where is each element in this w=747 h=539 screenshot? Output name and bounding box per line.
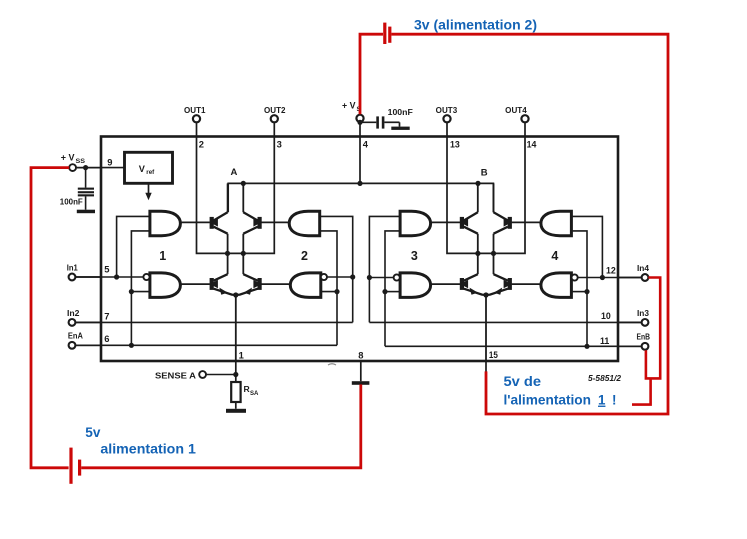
junction dot EnA feed west	[129, 343, 134, 348]
svg-text:7: 7	[104, 310, 109, 321]
svg-text:4: 4	[363, 138, 369, 149]
junction dot B west	[475, 181, 480, 186]
inverting bubble on G4 lower input	[572, 274, 578, 280]
svg-text:SENSE A: SENSE A	[155, 370, 196, 380]
svg-text:13: 13	[450, 139, 460, 149]
node A label	[231, 167, 238, 178]
pin number 1	[239, 349, 244, 360]
wire EnB (pin 11) into IC	[385, 345, 642, 347]
pin number 2	[199, 138, 204, 149]
pin number 14	[527, 139, 537, 149]
pin 5 In1 terminal	[67, 262, 101, 280]
wire In3 feed up to G3 upper input	[369, 216, 400, 322]
emitter common node of cross A	[233, 292, 238, 297]
wire In4 feed up to G4 upper input	[571, 216, 602, 277]
svg-text:1: 1	[239, 349, 244, 360]
capacitor C1 100nF at +Vss	[60, 168, 94, 210]
channel label 1	[159, 249, 166, 263]
wire G1 lower output to QA3 base	[180, 283, 210, 285]
pin 13 OUT3 terminal circle and stub	[436, 106, 458, 138]
svg-text:V: V	[139, 164, 146, 174]
pin 1 lead below IC (SENSE A)	[235, 361, 237, 382]
ground bar at pin 8	[352, 381, 370, 385]
pin number 8	[358, 349, 363, 360]
wire EnB tap to G3 lower input	[385, 291, 400, 293]
pin number 7	[104, 310, 109, 321]
Vref regulator box U-ref	[125, 152, 173, 183]
red wire +Vss to battery 1 positive	[31, 168, 69, 468]
svg-text:ref: ref	[146, 169, 155, 176]
svg-text:3v (alimentation 2): 3v (alimentation 2)	[414, 18, 537, 34]
OUT1-OUT2 rail with pin 2 and pin 3 leads	[197, 137, 275, 254]
svg-text:100nF: 100nF	[388, 107, 413, 117]
OUT3-OUT4 rail with pin 13 and pin 14 leads	[447, 137, 525, 254]
scan artifact squiggle	[328, 364, 336, 365]
wire In2 feed up to G2 upper input	[320, 216, 353, 322]
wire In1 feed up to G1 upper input	[117, 216, 150, 277]
transistor QA2 (upper east) of cross	[243, 183, 261, 253]
svg-text:SA: SA	[250, 391, 259, 397]
junction dot EnB feed east	[584, 344, 589, 349]
junction dot EnA tap G1	[129, 289, 134, 294]
AND gate G3 upper (channel 3 source driver)	[400, 211, 431, 236]
node +Vss junction dot	[83, 165, 88, 170]
inverting bubble on G3 lower input	[394, 274, 400, 280]
svg-text:4: 4	[551, 249, 558, 263]
channel label 2	[301, 249, 308, 263]
svg-text:9: 9	[107, 157, 112, 168]
junction dot EnA tap G2	[334, 289, 339, 294]
pin 7 In2 terminal	[67, 308, 101, 326]
ground bar of C1	[77, 210, 95, 214]
annotation 5v alimentation 1	[85, 425, 196, 457]
red pointer wire to annotation text	[632, 378, 651, 404]
battery B2 3v alimentation 2	[385, 23, 390, 44]
pin number 6	[104, 333, 109, 344]
SENSE A terminal	[155, 370, 236, 380]
svg-text:1: 1	[159, 249, 166, 263]
svg-text:5: 5	[104, 263, 109, 274]
wire EnA tap to G2 lower input	[321, 291, 337, 293]
svg-text:5v: 5v	[85, 425, 101, 440]
junction dot EnB tap G4	[584, 289, 589, 294]
wire G2 lower output to QA4 base	[261, 283, 290, 285]
pin number 5	[104, 263, 109, 274]
channel label 3	[411, 249, 418, 263]
transistor QB4 (lower east) of cross	[486, 253, 512, 295]
wire EnB tap to G4 lower input	[571, 291, 587, 293]
svg-text:11: 11	[600, 336, 609, 346]
svg-text:10: 10	[601, 311, 611, 321]
capacitor C2 100nF at +Vs	[357, 107, 412, 128]
svg-text:100nF: 100nF	[60, 196, 83, 206]
Vref output arrow	[145, 184, 151, 200]
svg-text:l'alimentation: l'alimentation	[504, 393, 592, 408]
figure reference 5-5851/2	[588, 374, 622, 383]
AND gate G4 lower (channel 4 sink driver)	[541, 273, 572, 298]
inverting bubble on G2 lower input	[321, 274, 327, 280]
transistor QB2 (upper east) of cross	[494, 183, 512, 253]
svg-text:OUT1: OUT1	[184, 106, 206, 115]
pin number 3	[277, 138, 282, 149]
inverting bubble on G1 lower input	[143, 274, 149, 280]
wire EnA feed up to G1 upper input 2	[131, 231, 150, 345]
wire G1 upper output to QA1 base	[180, 221, 210, 223]
pin 2 OUT1 terminal circle and stub	[184, 106, 206, 138]
pin number 9	[107, 157, 112, 168]
svg-text:A: A	[231, 167, 238, 178]
pin 11 EnB terminal	[618, 332, 650, 350]
wire pin9 to Vref	[101, 167, 125, 169]
pin 10 In3 terminal	[618, 308, 649, 326]
red wire battery 1 negative to pin 8 ground	[81, 384, 361, 467]
wire In4 (pin 12) to G4 bubble input	[578, 277, 642, 279]
emitter common node of cross B	[483, 292, 488, 297]
pin 4 +Vs terminal circle and stub	[342, 101, 364, 184]
node A-B rail (+Vs internal rail)	[228, 183, 493, 212]
junction dot A east	[241, 181, 246, 186]
wire In2 (pin 7) into IC	[75, 321, 353, 323]
pin 12 In4 terminal	[618, 263, 649, 281]
AND gate G3 lower (channel 3 sink driver)	[400, 273, 431, 298]
battery B1 5v alimentation 1	[71, 448, 80, 484]
red wire +Vs up to battery 2	[360, 34, 383, 114]
ground bar of C2	[391, 127, 409, 130]
svg-text:In3: In3	[637, 308, 649, 318]
transistor QA4 (lower east) of cross	[236, 253, 262, 295]
transistor QA1 (upper west) of cross	[210, 183, 228, 253]
wire G3 lower output to QB3 base	[431, 283, 461, 285]
wire In3 (pin 10) into IC	[369, 321, 641, 323]
pin 9 +Vss terminal	[61, 153, 101, 171]
wire G3 bubble input to In3 feed	[369, 277, 393, 279]
svg-text:2: 2	[199, 138, 204, 149]
svg-text:SS: SS	[76, 158, 86, 165]
red wire In4 to EnB link	[646, 278, 660, 379]
svg-text:EnB: EnB	[637, 332, 651, 342]
svg-text:OUT4: OUT4	[505, 106, 527, 115]
pin number 11	[600, 336, 609, 346]
svg-text:OUT3: OUT3	[436, 106, 458, 115]
svg-text:1: 1	[598, 393, 606, 408]
pin number 15	[489, 350, 498, 360]
resistor RSA	[231, 382, 259, 402]
wire G3 upper output to QB1 base	[431, 221, 461, 223]
junction dot In4 feed	[600, 275, 605, 280]
svg-text:15: 15	[489, 350, 498, 360]
annotation 5v de l'alimentation 1	[504, 374, 617, 408]
svg-text:3: 3	[277, 138, 282, 149]
svg-text:+ V: + V	[61, 153, 75, 163]
transistor QB3 (lower west) of cross	[460, 253, 486, 295]
transistor QB1 (upper west) of cross	[460, 183, 478, 253]
wire G2 upper output to QA2 base	[261, 221, 289, 223]
pin number 4	[363, 138, 369, 149]
pin 3 OUT2 terminal circle and stub	[264, 106, 286, 138]
junction dot In3 feed to bubble	[367, 275, 372, 280]
wire EnA feed up to G2 upper input 2	[320, 231, 337, 345]
svg-text:B: B	[481, 168, 488, 179]
sense lead wire from cross B	[485, 295, 487, 361]
wire EnB feed up to G4 upper input 2	[571, 231, 587, 346]
svg-text:6: 6	[104, 333, 109, 344]
svg-text:3: 3	[411, 249, 418, 263]
svg-text:5-5851/2: 5-5851/2	[588, 374, 622, 383]
svg-text:5v de: 5v de	[504, 374, 542, 389]
svg-text:+ V: + V	[342, 101, 356, 111]
junction dots on left OUT rail	[225, 251, 246, 256]
pin number 12	[606, 265, 616, 275]
svg-text:8: 8	[358, 349, 363, 360]
junction dot In1 feed	[114, 274, 119, 279]
svg-text:OUT2: OUT2	[264, 106, 286, 115]
AND gate G1 upper (channel 1 source driver)	[150, 211, 181, 236]
pin number 13	[450, 139, 460, 149]
wire G4 upper output to QB2 base	[512, 221, 541, 223]
wire In1 (pin 5) to G1 bubble input	[75, 276, 143, 278]
svg-text:In4: In4	[637, 263, 649, 273]
wire G2 bubble input to In2 feed	[327, 276, 353, 278]
transistor QA3 (lower west) of cross	[210, 253, 236, 295]
wire G4 lower output to QB4 base	[512, 283, 541, 285]
pin number 10	[601, 311, 611, 321]
junction dots on right OUT rail	[475, 251, 496, 256]
AND gate G4 upper (channel 4 source driver)	[541, 211, 572, 236]
svg-text:14: 14	[527, 139, 537, 149]
IC outline (dashed-less package boundary)	[101, 137, 618, 362]
svg-text:In2: In2	[67, 308, 80, 318]
annotation 3v alimentation 2	[414, 18, 537, 34]
svg-text:alimentation 1: alimentation 1	[100, 442, 196, 457]
pin 14 OUT4 terminal circle and stub	[505, 106, 528, 138]
pin 15 lead below IC (SENSE B)	[485, 361, 487, 372]
svg-text:In1: In1	[67, 262, 78, 272]
junction dot In2 feed to bubble	[350, 274, 355, 279]
junction dot sense A	[233, 372, 238, 377]
ground bar below RSA	[226, 409, 246, 413]
svg-text:!: !	[612, 393, 616, 408]
AND gate G2 upper (channel 2 source driver)	[289, 211, 320, 236]
red wire battery 2 to pin 15 sense B	[391, 34, 668, 414]
sense lead wire from cross A	[235, 295, 237, 361]
wire EnB feed up to G3 upper input 2	[385, 231, 400, 346]
wire EnA (pin 6) into IC	[75, 344, 337, 346]
wire EnA tap to G1 lower input	[131, 291, 150, 293]
wire RSA to ground	[235, 402, 237, 409]
AND gate G1 lower (channel 1 sink driver)	[150, 273, 181, 298]
junction dot +Vs pin4	[357, 181, 362, 186]
pin 8 lead below IC (GND)	[360, 361, 362, 381]
svg-text:EnA: EnA	[68, 331, 83, 341]
AND gate G2 lower (channel 2 sink driver)	[290, 273, 321, 298]
pin 6 EnA terminal	[68, 331, 101, 349]
node B label	[481, 168, 488, 179]
svg-text:12: 12	[606, 265, 616, 275]
svg-text:2: 2	[301, 249, 308, 263]
channel label 4	[551, 249, 558, 263]
junction dot EnB tap G3	[382, 289, 387, 294]
